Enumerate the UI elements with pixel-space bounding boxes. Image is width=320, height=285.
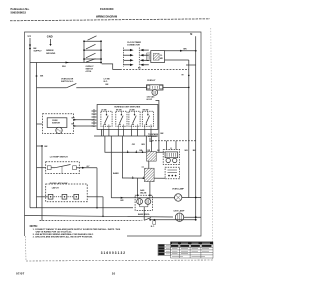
wire ignitor out 1 bbox=[74, 119, 95, 121]
wire latch in bbox=[37, 196, 48, 198]
bottom bus C bbox=[40, 219, 143, 221]
svg-text:BK: BK bbox=[184, 49, 188, 51]
spark module dashed box bbox=[163, 150, 179, 165]
spark module inner bbox=[165, 152, 178, 158]
wire from switch bank to EOC bbox=[102, 64, 120, 70]
title block left table bbox=[158, 244, 171, 255]
svg-text:MODULE: MODULE bbox=[148, 136, 157, 138]
svg-text:SUPPLY: SUPPLY bbox=[34, 51, 43, 53]
svg-text:BAKE: BAKE bbox=[113, 172, 119, 175]
broil-bake link bbox=[148, 161, 150, 168]
svg-text:OR: OR bbox=[132, 144, 136, 146]
svg-text:VALVE: VALVE bbox=[140, 192, 147, 195]
svg-text:BK: BK bbox=[45, 146, 49, 148]
ignitor circle bbox=[56, 127, 62, 133]
left cut line lower bbox=[25, 236, 28, 261]
surface light switch bank bbox=[83, 41, 85, 62]
junction right drop bbox=[188, 75, 190, 77]
ground symbol bbox=[50, 39, 52, 44]
lamp feed wire bbox=[110, 176, 112, 198]
svg-text:N.C.: N.C. bbox=[151, 226, 155, 228]
bottom bus A bbox=[30, 207, 133, 209]
svg-text:N.O.: N.O. bbox=[104, 81, 109, 83]
svg-text:UNIT IS RATED FOR 120 VOLTS AC: UNIT IS RATED FOR 120 VOLTS AC. bbox=[36, 230, 73, 233]
wire bus to N dashed bbox=[152, 140, 196, 142]
solenoid coil 2 bbox=[145, 199, 151, 205]
clock module box bbox=[151, 51, 165, 63]
wire flame switch out bbox=[76, 167, 97, 169]
junction oven light branch bbox=[36, 75, 38, 77]
switch sub-box 2 bbox=[116, 111, 127, 126]
wire lamp2 to N bbox=[184, 216, 201, 218]
svg-text:10: 10 bbox=[112, 272, 116, 276]
svg-text:WH: WH bbox=[62, 66, 66, 68]
switch sub-box 4 bbox=[142, 111, 153, 126]
oven light switch row bbox=[37, 87, 67, 89]
svg-text:DOOR LATCH SW: DOOR LATCH SW bbox=[50, 182, 68, 185]
bottom rule bbox=[26, 260, 213, 261]
svg-text:SWITCH N.O.: SWITCH N.O. bbox=[61, 81, 74, 83]
clock display hatched bbox=[153, 54, 159, 61]
svg-text:MD: MD bbox=[160, 58, 163, 60]
svg-text:IGNITOR: IGNITOR bbox=[52, 123, 60, 125]
svg-text:FGF316DC: FGF316DC bbox=[100, 7, 114, 11]
spark module lower dashed box bbox=[165, 167, 180, 179]
svg-text:LF SW: LF SW bbox=[101, 110, 107, 112]
svg-text:N: N bbox=[190, 32, 192, 36]
svg-text:L1: L1 bbox=[28, 34, 32, 38]
latch terminal 3 bbox=[74, 194, 79, 199]
wire L1 vertical bbox=[29, 38, 31, 208]
svg-text:CL: CL bbox=[160, 55, 163, 57]
svg-text:316003132: 316003132 bbox=[101, 251, 126, 255]
wire merge horizontals bbox=[37, 145, 43, 147]
latch terminal 2 bbox=[62, 194, 67, 199]
svg-text:RF SW: RF SW bbox=[116, 110, 122, 112]
svg-text:SURFACE UNIT SWITCHES: SURFACE UNIT SWITCHES bbox=[114, 106, 141, 109]
wire branch vertical bbox=[36, 63, 38, 208]
svg-text:WIRING DIAGRAM: WIRING DIAGRAM bbox=[96, 15, 117, 19]
oven lamp bbox=[175, 194, 182, 201]
wires below switch block bbox=[102, 129, 104, 136]
latch terminal 1 bbox=[48, 194, 53, 199]
svg-text:60 HZ: 60 HZ bbox=[147, 99, 153, 101]
surface burner switch block bbox=[97, 105, 158, 130]
svg-text:BAKE BROIL: BAKE BROIL bbox=[138, 213, 151, 216]
spark row wire bbox=[105, 136, 164, 152]
wire clock lower out bbox=[165, 59, 189, 61]
electrode circles bbox=[166, 158, 170, 162]
surface switch block connector ticks bbox=[93, 109, 95, 127]
svg-text:BK: BK bbox=[138, 67, 141, 69]
wire stub to N bbox=[186, 64, 196, 66]
connector pins left column bbox=[123, 49, 133, 66]
wire switch to N bbox=[150, 219, 196, 221]
gas valve dashed box bbox=[135, 195, 152, 210]
solenoid coil 1 bbox=[137, 199, 143, 205]
oven lamp receptacle bbox=[147, 85, 164, 90]
wire motor drop bbox=[156, 101, 159, 153]
connector pins right column bbox=[140, 49, 149, 66]
svg-text:LO TEMP SWITCH: LO TEMP SWITCH bbox=[50, 157, 68, 159]
wire motor to N bbox=[163, 86, 189, 88]
title block main table bbox=[171, 242, 214, 258]
switch sub-box 1 bbox=[101, 111, 112, 126]
EOC connector rails bbox=[122, 48, 124, 67]
header rule bbox=[10, 19, 210, 21]
broil ignitor hatched bbox=[147, 152, 157, 162]
flame switch dashed box bbox=[46, 162, 80, 174]
svg-text:OVEN LT: OVEN LT bbox=[147, 80, 156, 82]
clock connector left bbox=[147, 53, 151, 61]
svg-text:120V LAMP: 120V LAMP bbox=[173, 209, 185, 212]
svg-text:RR SW: RR SW bbox=[143, 110, 149, 112]
svg-text:3. CIRCUITS ARE SHOWN WITH ALL: 3. CIRCUITS ARE SHOWN WITH ALL SW IN OFF… bbox=[33, 235, 94, 238]
svg-text:LATCH: LATCH bbox=[52, 186, 59, 189]
right cut line bbox=[211, 28, 213, 260]
wire N vertical bbox=[195, 36, 197, 220]
schematic frame bbox=[25, 32, 202, 236]
svg-text:WH: WH bbox=[185, 150, 189, 152]
svg-text:4 POS.: 4 POS. bbox=[86, 70, 93, 73]
svg-text:LR SW: LR SW bbox=[129, 110, 135, 112]
wire lamp to N bbox=[182, 197, 201, 199]
junction arrow on top bus bbox=[66, 62, 70, 64]
wire latch out bbox=[87, 196, 103, 198]
switch sub-box 3 bbox=[129, 111, 140, 126]
svg-text:BK: BK bbox=[34, 48, 38, 50]
valve feed wires bbox=[137, 178, 139, 195]
svg-text:OVEN LAMP: OVEN LAMP bbox=[172, 187, 185, 190]
switch blade bbox=[66, 84, 76, 88]
svg-text:WH: WH bbox=[141, 144, 145, 146]
svg-text:5995268615: 5995268615 bbox=[11, 10, 27, 14]
svg-text:GROUND: GROUND bbox=[46, 53, 56, 55]
wire collector bus mid bbox=[94, 135, 158, 137]
switch hang symbol bbox=[153, 221, 156, 224]
svg-text:BK: BK bbox=[150, 141, 153, 143]
svg-text:BR: BR bbox=[121, 200, 124, 202]
svg-text:CONNECTOR: CONNECTOR bbox=[127, 44, 140, 46]
svg-text:BK: BK bbox=[161, 133, 165, 135]
svg-text:BK: BK bbox=[40, 75, 44, 77]
wire top bus bbox=[30, 62, 102, 64]
wire drops into spark module bbox=[166, 141, 168, 150]
svg-text:GREEN: GREEN bbox=[46, 50, 54, 52]
ignitor inner module bbox=[47, 118, 67, 128]
junction left mid bbox=[41, 145, 43, 147]
label BK on clock-N wire bbox=[180, 50, 183, 52]
svg-text:WH: WH bbox=[72, 118, 76, 120]
wire ignitor in bbox=[37, 123, 43, 125]
valve bottom joint bbox=[140, 204, 148, 206]
svg-text:GND: GND bbox=[47, 34, 53, 38]
wire right drop bbox=[188, 60, 190, 198]
bottom bus B bbox=[25, 216, 174, 218]
svg-text:GY: GY bbox=[157, 150, 160, 152]
junction L1 supply bbox=[29, 45, 31, 48]
lamp circle under receptacle bbox=[152, 90, 158, 96]
svg-text:BK: BK bbox=[106, 84, 109, 86]
oven ignitor dashed box bbox=[43, 114, 74, 134]
wire clock to N bbox=[165, 50, 196, 52]
junction clock N bbox=[195, 50, 197, 52]
bake ignitor hatched bbox=[142, 166, 145, 168]
ignitor row wire bbox=[122, 136, 165, 178]
lamp 2 bbox=[175, 213, 183, 221]
door latch switch dashed box bbox=[46, 184, 87, 202]
wire ignitor out 2 bbox=[74, 125, 95, 127]
bottom switch blade bbox=[144, 218, 151, 221]
svg-text:NOTE:: NOTE: bbox=[30, 224, 38, 228]
svg-text:07/07: 07/07 bbox=[16, 271, 25, 275]
